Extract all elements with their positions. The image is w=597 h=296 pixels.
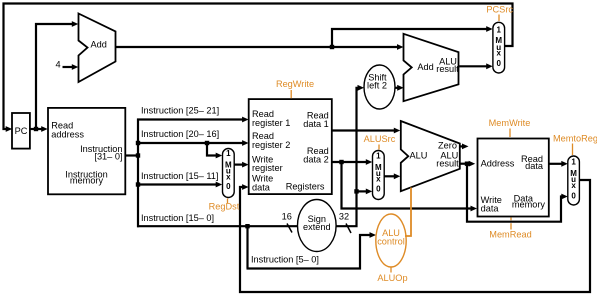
wire ALU control to ALU (orange) xyxy=(405,188,411,237)
svg-text:PC: PC xyxy=(15,126,28,136)
arrow into Add top input xyxy=(72,21,79,27)
wire branch to RegDst mux input 1 xyxy=(207,143,217,156)
wire Add output to branch Add xyxy=(115,46,398,48)
mux MemtoReg xyxy=(568,156,580,205)
svg-text:MemWrite: MemWrite xyxy=(489,118,531,128)
node read data 2 branch junction xyxy=(339,160,343,164)
adder Add (branch target) xyxy=(404,34,460,101)
PC box xyxy=(12,113,30,149)
arrow into Write data of registers xyxy=(242,184,249,190)
wire sign extend output up to shift left 2 xyxy=(337,88,360,226)
arrow into Write register xyxy=(242,162,249,168)
mux RegDst xyxy=(223,149,235,198)
wire Read data 2 branch to data memory Write data xyxy=(342,162,473,209)
svg-text:ALUOp: ALUOp xyxy=(377,273,407,283)
wire Instruction 5-0 vertical drop xyxy=(246,226,248,268)
label 32 and bus width slash xyxy=(339,212,351,234)
wire RegDst mux output to Write register xyxy=(234,164,243,166)
svg-text:x: x xyxy=(226,172,231,181)
arrow into Read address xyxy=(41,126,48,132)
wire Instruction 15-0 to sign extend xyxy=(137,225,298,227)
svg-text:address: address xyxy=(51,130,84,140)
arrow into ALU control xyxy=(370,232,377,238)
wire ALU result to data memory Address xyxy=(460,163,471,165)
svg-text:ALUSrc: ALUSrc xyxy=(364,134,396,144)
ALU main xyxy=(401,121,460,191)
arrow into PCSrc mux input 1 xyxy=(486,26,493,32)
label ALUSrc xyxy=(364,134,396,150)
adder Add (PC+4) xyxy=(79,14,116,83)
svg-text:RegWrite: RegWrite xyxy=(276,79,314,89)
wire shift left 2 output to branch Add xyxy=(395,87,399,89)
wire PC branch up to Add xyxy=(36,24,73,129)
svg-text:1: 1 xyxy=(571,158,576,167)
node instr 20-16 junction xyxy=(136,141,140,145)
wire Instruction 15-11 to RegDst mux input 0 xyxy=(137,183,217,185)
wire PC to instruction memory xyxy=(30,128,43,130)
svg-text:Registers: Registers xyxy=(286,182,325,192)
svg-text:0: 0 xyxy=(571,191,576,200)
svg-text:extend: extend xyxy=(303,222,331,232)
wire ALU Zero stub xyxy=(460,145,464,147)
svg-text:MemtoReg: MemtoReg xyxy=(553,133,597,143)
svg-text:data: data xyxy=(525,161,544,171)
svg-text:Instruction [25– 21]: Instruction [25– 21] xyxy=(141,106,219,116)
svg-text:RegDst: RegDst xyxy=(209,201,240,211)
shift left 2 ellipse xyxy=(364,65,395,109)
svg-text:register: register xyxy=(252,163,283,173)
wire ALUSrc mux output to ALU xyxy=(384,175,395,177)
svg-text:4: 4 xyxy=(55,60,60,70)
label MemRead xyxy=(489,218,531,240)
svg-text:data: data xyxy=(481,204,500,214)
node instruction bus junction xyxy=(136,153,140,157)
arrow into ALUSrc mux input 1 xyxy=(366,159,373,165)
sign extend ellipse xyxy=(298,200,337,252)
arrow into ALU top input xyxy=(394,128,401,134)
svg-text:1: 1 xyxy=(226,149,231,158)
svg-text:left 2: left 2 xyxy=(367,80,387,90)
svg-text:register 2: register 2 xyxy=(252,140,290,150)
svg-text:control: control xyxy=(377,236,405,246)
arrow into MemtoReg mux input 1 xyxy=(561,161,568,167)
svg-text:data: data xyxy=(252,182,271,192)
wire Read data 1 to ALU xyxy=(332,129,395,131)
svg-text:data 2: data 2 xyxy=(303,155,329,165)
svg-text:0: 0 xyxy=(496,59,501,68)
arrow into branch Add bottom input xyxy=(397,85,404,91)
mux PCSrc xyxy=(493,22,505,73)
wire instruction bus vertical xyxy=(137,119,139,228)
svg-text:x: x xyxy=(496,49,501,58)
wire Instruction 25-21 xyxy=(137,118,243,120)
svg-text:[31– 0]: [31– 0] xyxy=(94,151,122,161)
svg-text:Instruction [15– 11]: Instruction [15– 11] xyxy=(141,171,218,181)
instruction memory box xyxy=(48,108,125,194)
node instr 15-0 to 5-0 junction xyxy=(245,224,249,228)
arrow into RegDst mux input 1 xyxy=(216,153,223,159)
label 16 and bus width slash xyxy=(282,212,292,233)
arrow into MemtoReg mux input 0 xyxy=(561,194,568,200)
label PCSrc xyxy=(486,4,513,21)
node instr 20-16 to mux junction xyxy=(205,141,209,145)
arrow into PCSrc mux input 0 xyxy=(486,63,493,69)
wire 4 to Add xyxy=(63,66,74,68)
registers box xyxy=(249,99,332,194)
arrow into Read register 1 xyxy=(242,117,249,123)
arrow into data memory Address xyxy=(469,161,476,167)
label MemtoReg xyxy=(553,133,597,155)
wire data memory Read data to MemtoReg mux input 1 xyxy=(549,163,563,165)
svg-text:memory: memory xyxy=(70,175,104,185)
svg-text:MemRead: MemRead xyxy=(489,230,531,240)
node PC branch junction xyxy=(34,127,38,131)
wire PC+4 to PCSrc mux input 1 xyxy=(332,29,487,47)
svg-text:16: 16 xyxy=(282,212,292,222)
arrow into PC xyxy=(6,126,13,132)
svg-text:result: result xyxy=(436,64,459,74)
wire instruction memory output xyxy=(126,154,139,156)
mux ALUSrc xyxy=(373,151,385,200)
svg-text:data 1: data 1 xyxy=(303,119,329,129)
wire sign extend tap to ALUSrc mux input 0 xyxy=(357,190,368,192)
label RegDst xyxy=(209,199,240,212)
wire Instruction 5-0 to ALU control xyxy=(247,235,372,269)
arrow into branch Add top input xyxy=(397,44,404,50)
svg-text:0: 0 xyxy=(226,182,231,191)
wire branch Add output to PCSrc mux input 0 xyxy=(459,65,487,67)
node PC+4 branch junction xyxy=(330,45,334,49)
data memory box xyxy=(478,139,549,217)
node ALU result branch junction xyxy=(465,162,469,166)
arrow into data memory Write data xyxy=(471,206,478,212)
svg-text:1: 1 xyxy=(496,26,501,35)
wire PCSrc mux output loop to PC xyxy=(4,4,513,130)
svg-text:PCSrc: PCSrc xyxy=(486,4,513,14)
node instr 15-11 junction xyxy=(136,182,140,186)
wire Instruction 20-16 xyxy=(137,142,243,144)
arrow into Read register 2 xyxy=(242,140,249,146)
svg-text:x: x xyxy=(571,181,576,190)
svg-text:Add: Add xyxy=(91,39,107,49)
svg-text:Instruction [20– 16]: Instruction [20– 16] xyxy=(141,129,219,139)
arrow into ALUSrc mux input 0 xyxy=(366,189,373,195)
label ALUOp xyxy=(377,268,407,284)
svg-text:Address: Address xyxy=(481,159,515,169)
svg-text:32: 32 xyxy=(339,212,349,222)
wire write-back MemtoReg mux output to Write data xyxy=(240,180,590,292)
arrow 4 into Add bottom input xyxy=(72,64,79,70)
svg-text:x: x xyxy=(376,175,381,184)
svg-text:ALU: ALU xyxy=(409,151,427,161)
svg-text:Instruction [15– 0]: Instruction [15– 0] xyxy=(141,213,214,223)
label RegWrite xyxy=(276,79,314,98)
svg-text:Zero: Zero xyxy=(438,141,457,151)
svg-text:memory: memory xyxy=(512,200,546,210)
arrow into ALU bottom input xyxy=(394,173,401,179)
node sign extend tap junction xyxy=(354,189,358,193)
arrow ALU Zero stub xyxy=(462,144,469,150)
svg-text:0: 0 xyxy=(376,184,381,193)
svg-text:result: result xyxy=(436,159,459,169)
svg-text:register 1: register 1 xyxy=(252,118,290,128)
svg-text:Add: Add xyxy=(417,62,433,72)
wire ALU result down to MemtoReg mux input 0 xyxy=(467,164,563,222)
ALU control ellipse xyxy=(376,214,406,267)
arrow into RegDst mux input 0 xyxy=(216,182,223,188)
svg-text:Instruction [5– 0]: Instruction [5– 0] xyxy=(251,254,319,264)
svg-text:1: 1 xyxy=(376,152,381,161)
wire Read data 2 to ALUSrc mux input 1 xyxy=(332,161,367,163)
label MemWrite xyxy=(489,118,531,137)
arrow into shift left 2 xyxy=(358,85,365,91)
